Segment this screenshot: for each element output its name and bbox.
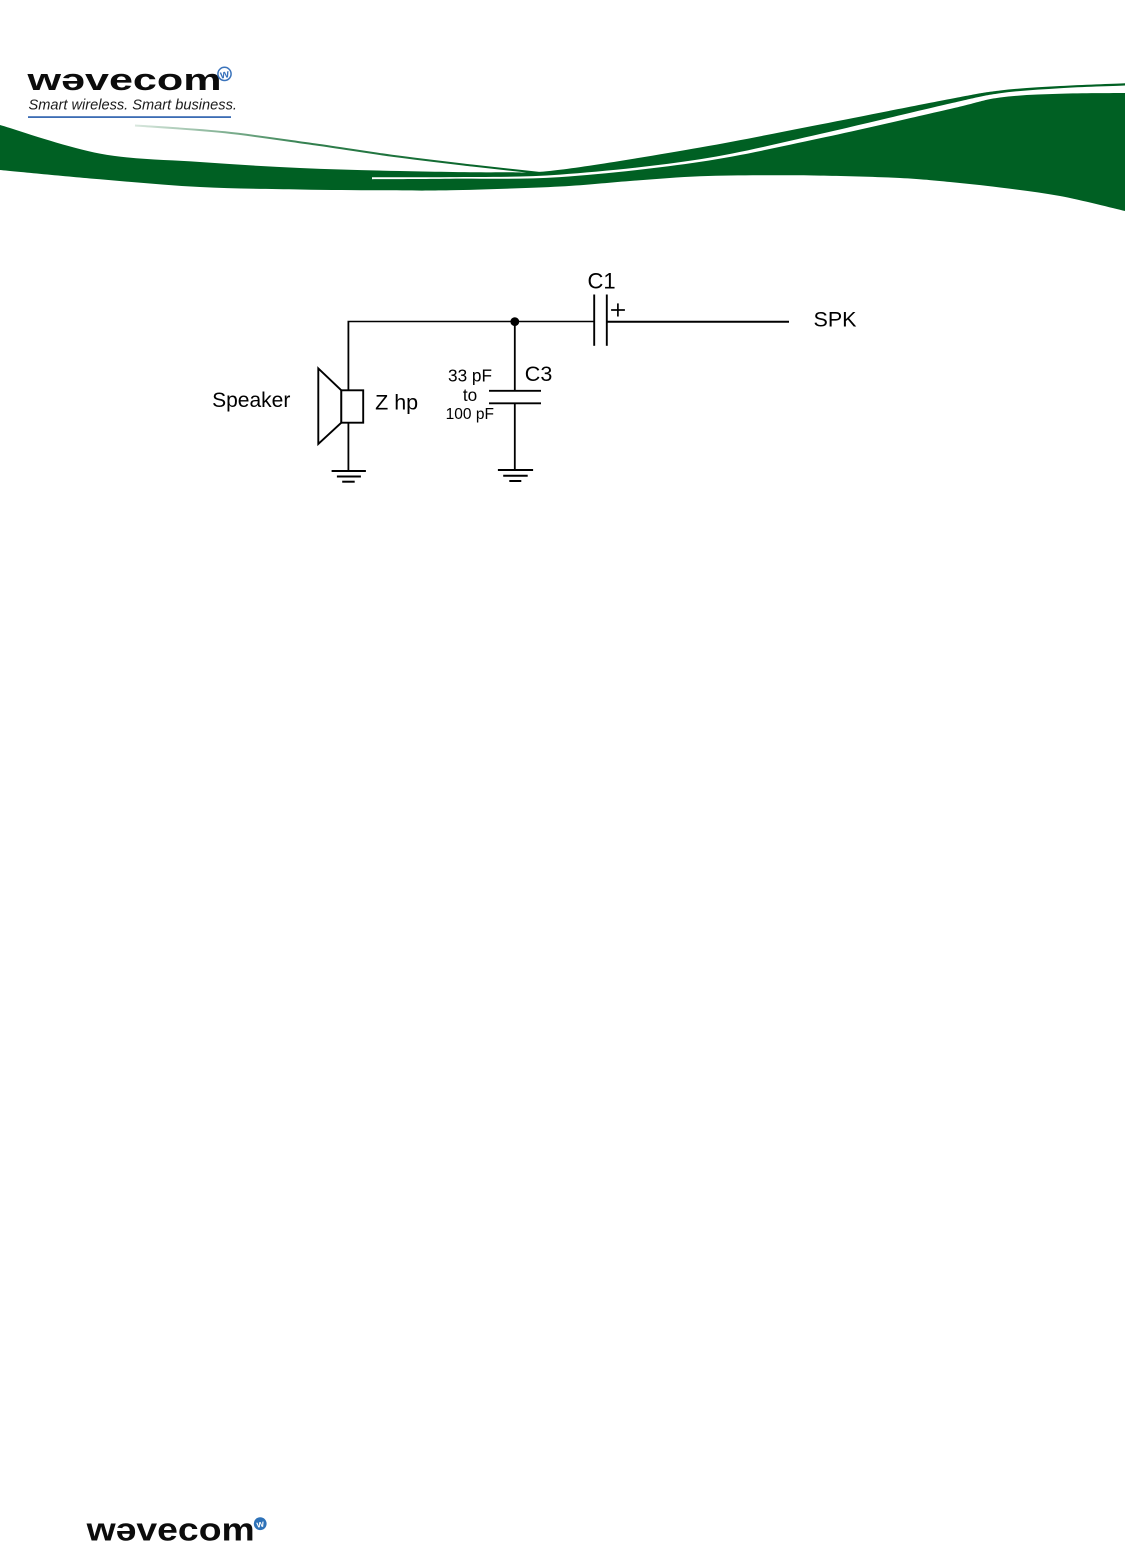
- ground (speaker): [332, 471, 366, 482]
- wire: C3 to ground: [514, 404, 516, 471]
- ground (C3): [498, 470, 533, 481]
- svg-text:33 pF: 33 pF: [448, 365, 492, 385]
- wire: speaker bottom lead: [347, 422, 349, 471]
- blue rule: [28, 116, 231, 118]
- capacitor C1 (polarized): [594, 295, 607, 346]
- svg-text:Z hp: Z hp: [375, 390, 418, 414]
- wavecom logo (bottom): [86, 1513, 267, 1541]
- svg-text:100 pF: 100 pF: [446, 406, 494, 423]
- svg-text:wəvecom: wəvecom: [26, 62, 221, 97]
- speaker LS1: [318, 368, 363, 444]
- plus polarity mark: [611, 303, 625, 316]
- svg-text:C3: C3: [525, 362, 553, 386]
- wire: speaker top lead: [347, 322, 349, 392]
- value label 33 pF to 100 pF: [446, 365, 494, 423]
- wire: top horizontal from speaker to C1 left plate: [348, 321, 595, 323]
- svg-text:SPK: SPK: [814, 307, 858, 331]
- capacitor C3: [489, 391, 541, 404]
- svg-text:wəvecom: wəvecom: [86, 1513, 255, 1541]
- svg-text:C1: C1: [587, 268, 615, 293]
- svg-text:w: w: [218, 68, 230, 82]
- svg-text:to: to: [463, 385, 477, 405]
- node junction dot: [510, 317, 519, 326]
- wire: from C1 right plate to SPK: [607, 321, 789, 323]
- svg-text:Smart wireless. Smart business: Smart wireless. Smart business.: [29, 97, 237, 113]
- wire: junction down to C3: [514, 322, 516, 390]
- svg-text:Speaker: Speaker: [212, 389, 290, 412]
- header green wave swoosh: [0, 83, 1125, 211]
- wavecom logo (top): [26, 62, 231, 97]
